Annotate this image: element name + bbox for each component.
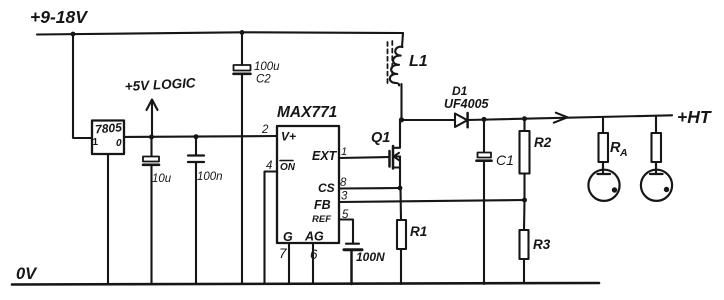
svg-text:100u: 100u <box>254 61 280 73</box>
svg-text:1: 1 <box>341 146 347 158</box>
svg-text:7: 7 <box>279 246 287 261</box>
resistor RA <box>599 118 628 173</box>
resistor R2 <box>520 119 552 200</box>
svg-text:4: 4 <box>266 160 272 172</box>
inductor L1 <box>388 33 428 119</box>
pin 3 wire FB to divider <box>339 200 525 202</box>
svg-text:ON: ON <box>280 162 296 173</box>
pin 1 wire EXT to gate of Q1 <box>339 157 390 158</box>
node junction dot 5V / 100n <box>194 134 199 139</box>
node junction dot at 7805 input branch <box>71 32 76 37</box>
svg-text:Q1: Q1 <box>371 130 390 146</box>
svg-text:V+: V+ <box>281 130 296 144</box>
svg-text:AG: AG <box>304 230 324 244</box>
wire +5V LOGIC arrow <box>151 100 153 137</box>
svg-text:7805: 7805 <box>95 120 123 136</box>
wire from +9-18V rail down to 7805 input <box>73 34 92 138</box>
svg-text:5: 5 <box>342 209 349 221</box>
node junction dot top rail / C2 <box>240 30 245 35</box>
node junction dot source / CS / R1 <box>398 186 403 191</box>
svg-text:0: 0 <box>116 138 122 149</box>
neon lamp 2 <box>641 162 672 201</box>
node junction dot 5V / 10u / arrow <box>149 135 154 140</box>
svg-text:1: 1 <box>93 137 99 148</box>
svg-text:REF: REF <box>312 214 331 225</box>
transistor Q1 <box>371 120 400 188</box>
svg-text:R3: R3 <box>533 237 551 252</box>
svg-text:A: A <box>619 147 628 159</box>
node junction dot R2 top <box>522 116 527 121</box>
svg-text:G: G <box>283 230 293 244</box>
node junction dot FB / R2 / R3 <box>522 198 527 203</box>
pin 5 wire REF to 100N <box>339 220 353 244</box>
capacitor C2 100u <box>234 33 281 284</box>
svg-text:0V: 0V <box>16 265 38 283</box>
wire 7805 output 5V rail to MAX771 V+ <box>124 136 277 137</box>
svg-text:8: 8 <box>340 177 347 189</box>
wire top +9-18V rail <box>37 32 403 34</box>
svg-text:2: 2 <box>261 124 269 136</box>
capacitor 10u <box>143 137 172 284</box>
svg-text:UF4005: UF4005 <box>444 97 490 111</box>
svg-text:3: 3 <box>341 191 348 203</box>
svg-text:C2: C2 <box>256 74 271 86</box>
resistor R1 <box>397 188 427 284</box>
regulator 7805 <box>92 120 124 154</box>
pin 8 wire CS to source of Q1 <box>339 187 400 190</box>
wire arrow on +HT rail <box>554 113 568 123</box>
capacitor 100n <box>188 137 223 284</box>
op-amp U1 MAX771 box <box>277 104 339 244</box>
pin 4 wire ON to 0V <box>265 172 278 285</box>
resistor for lamp 2 <box>652 117 662 172</box>
pin 7 wire to 0V rail <box>288 243 290 284</box>
svg-text:CS: CS <box>318 181 335 195</box>
svg-text:R2: R2 <box>534 135 552 150</box>
svg-text:D1: D1 <box>452 84 468 98</box>
capacitor C1 <box>477 120 514 284</box>
neon lamp 1 <box>588 162 619 201</box>
svg-text:+9-18V: +9-18V <box>30 7 88 27</box>
svg-text:FB: FB <box>314 198 331 212</box>
capacitor 100N <box>344 244 385 284</box>
svg-text:10u: 10u <box>152 173 172 185</box>
node junction dot drain / L1 / D1 <box>399 117 404 122</box>
resistor R3 <box>520 200 551 283</box>
pin 6 wire to 0V rail <box>312 243 314 284</box>
svg-text:+HT: +HT <box>677 107 712 127</box>
svg-text:6: 6 <box>310 247 318 262</box>
svg-text:100N: 100N <box>356 250 385 264</box>
diode D1 UF4005 <box>403 84 490 127</box>
wire 7805 ground to 0V rail <box>107 154 109 284</box>
wire 0V rail <box>12 283 599 285</box>
svg-text:L1: L1 <box>409 53 428 70</box>
svg-text:MAX771: MAX771 <box>277 104 337 121</box>
svg-text:+5V LOGIC: +5V LOGIC <box>124 75 196 94</box>
svg-text:100n: 100n <box>197 171 223 183</box>
wire +HT rail <box>468 115 672 120</box>
node junction dot C1 <box>482 117 487 122</box>
svg-text:EXT: EXT <box>312 149 338 163</box>
svg-text:R1: R1 <box>410 224 427 239</box>
svg-text:C1: C1 <box>496 152 514 168</box>
